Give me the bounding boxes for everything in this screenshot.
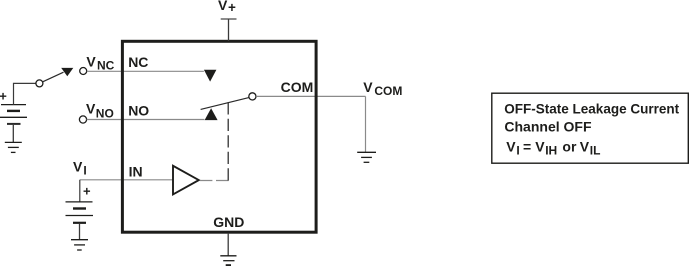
wire VI node to IN pin	[80, 179, 173, 181]
svg-text:OFF-State Leakage Current: OFF-State Leakage Current	[504, 100, 679, 116]
ground (GND pin)	[220, 256, 236, 265]
svg-text:Channel OFF: Channel OFF	[504, 119, 592, 135]
ground (VCOM)	[357, 152, 376, 162]
switch S1 blade	[43, 72, 64, 82]
COM pole circle	[249, 93, 256, 100]
svg-text:I: I	[516, 144, 519, 158]
svg-text:IH: IH	[545, 144, 557, 158]
svg-text:COM: COM	[374, 84, 402, 98]
battery B1 (left source)	[0, 105, 27, 124]
ground (left battery B1)	[5, 142, 22, 152]
svg-text:V: V	[73, 158, 83, 174]
V+ terminal bar	[221, 18, 237, 20]
ground (battery B2)	[71, 240, 88, 250]
wire VNC terminal to NC pin (into DUT)	[87, 70, 204, 72]
svg-text:or: or	[562, 138, 577, 154]
svg-text:NC: NC	[97, 58, 115, 72]
wire V+ to DUT top	[228, 19, 230, 41]
annotation line 3	[506, 138, 600, 157]
svg-text:NO: NO	[128, 103, 149, 119]
wire COM to VCOM node	[256, 95, 365, 97]
svg-text:NC: NC	[128, 54, 148, 70]
svg-text:V: V	[535, 138, 545, 154]
svg-text:V: V	[86, 101, 96, 117]
NC contact arrowhead (inside DUT)	[204, 70, 217, 82]
svg-text:NO: NO	[96, 106, 114, 120]
svg-text:V: V	[86, 54, 96, 70]
svg-text:I: I	[83, 164, 86, 178]
svg-text:+: +	[83, 184, 91, 199]
svg-text:V: V	[218, 0, 228, 13]
svg-text:COM: COM	[281, 79, 314, 95]
svg-text:GND: GND	[213, 214, 244, 230]
wire battery B1 up and right to switch S1 pole	[14, 83, 36, 104]
switch blade NO to COM pole	[201, 98, 249, 110]
svg-text:+: +	[228, 0, 236, 15]
op-amp buffer U2 (IN driver)	[173, 166, 199, 195]
wire battery B1 to ground	[12, 125, 14, 142]
dashed control line vertical to blade	[227, 102, 229, 180]
switch S1 pole circle	[36, 80, 43, 87]
annotation box	[492, 93, 689, 163]
wire GND pin to ground	[227, 233, 229, 256]
svg-text:+: +	[0, 89, 7, 104]
svg-text:V: V	[363, 79, 373, 95]
wire VI node down to battery B2	[79, 180, 81, 202]
battery B2 (VI source)	[66, 202, 94, 223]
svg-text:V: V	[506, 138, 516, 154]
wire VCOM node down to ground	[365, 96, 367, 152]
NO contact arrowhead (inside DUT)	[205, 108, 218, 120]
node VNO terminal circle	[79, 116, 86, 123]
switch S1 arrowhead (points to NC throw)	[61, 68, 73, 76]
svg-text:V: V	[580, 138, 590, 154]
DUT box U1	[122, 41, 316, 232]
node VNC terminal circle	[80, 68, 87, 75]
wire battery B2 to ground	[79, 224, 81, 240]
svg-text:IN: IN	[129, 163, 143, 179]
svg-text:=: =	[523, 138, 531, 154]
wire VNO terminal to NO pin (into DUT)	[87, 119, 205, 121]
svg-text:IL: IL	[590, 144, 601, 158]
dashed control line horizontal	[200, 180, 229, 182]
